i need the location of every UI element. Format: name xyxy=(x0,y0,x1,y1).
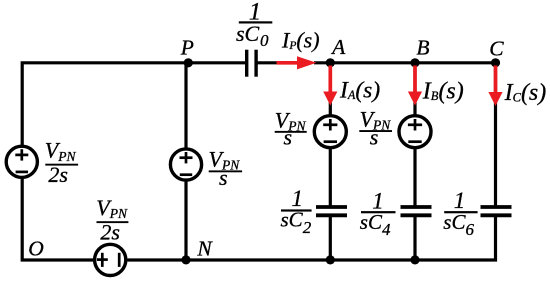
svg-text:sC4: sC4 xyxy=(360,210,391,239)
svg-text:sC6: sC6 xyxy=(443,210,474,239)
svg-text:2s: 2s xyxy=(100,220,120,245)
svg-text:IP(s): IP(s) xyxy=(281,27,320,52)
svg-text:sC0: sC0 xyxy=(236,21,269,50)
svg-text:VPN: VPN xyxy=(96,195,128,221)
svg-text:s: s xyxy=(370,125,379,150)
svg-text:B: B xyxy=(416,36,429,60)
svg-text:s: s xyxy=(219,165,228,190)
svg-text:sC2: sC2 xyxy=(281,207,312,237)
svg-text:s: s xyxy=(284,124,293,149)
svg-text:IB(s): IB(s) xyxy=(422,79,464,105)
svg-text:N: N xyxy=(196,237,213,261)
svg-text:2s: 2s xyxy=(48,162,68,187)
svg-text:VPN: VPN xyxy=(45,138,77,164)
svg-text:1: 1 xyxy=(372,188,384,213)
svg-text:P: P xyxy=(180,36,194,60)
svg-text:A: A xyxy=(330,35,346,59)
svg-text:1: 1 xyxy=(454,188,466,213)
svg-text:IA(s): IA(s) xyxy=(339,78,380,104)
svg-text:IC(s): IC(s) xyxy=(504,80,547,106)
svg-text:O: O xyxy=(28,237,44,261)
svg-text:C: C xyxy=(489,37,504,61)
